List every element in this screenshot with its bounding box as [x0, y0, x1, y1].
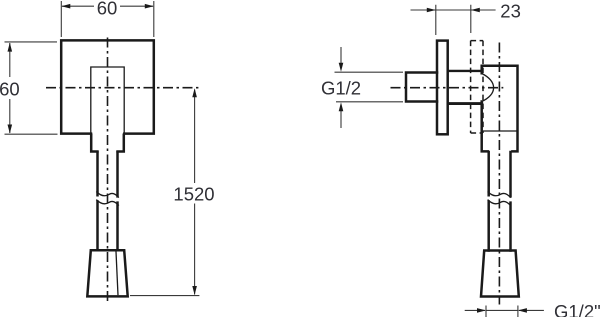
svg-text:G1/2: G1/2	[321, 78, 361, 99]
dimension 60 top: dimension line	[62, 5, 153, 7]
dimension G1/2: arrow below	[340, 111, 342, 128]
right view: vertical centerline	[498, 43, 500, 305]
cone inner line (front)	[116, 252, 118, 296]
hose break squiggle lower (side)	[488, 200, 511, 206]
elbow body (side view)	[482, 66, 518, 152]
dimension G1/2 inch: extension lines	[486, 306, 518, 317]
dimension 23: dimension line	[411, 9, 496, 11]
hose upper segment (side)	[489, 152, 511, 196]
hose conical tip (side)	[481, 251, 519, 297]
dimension G1/2 inch: arrowheads	[477, 308, 527, 313]
dimension G1/2 inch: dimension line	[465, 309, 544, 311]
dimension 60 left: arrowheads	[8, 43, 13, 134]
body joint line	[483, 130, 517, 132]
pipe end arc inside body	[482, 74, 494, 102]
left view: vertical centerline	[107, 38, 109, 305]
hose break squiggle lower (front)	[96, 200, 119, 206]
inner rectangle (cover detail)	[91, 67, 124, 133]
svg-text:1520: 1520	[173, 183, 214, 204]
hose break squiggle upper (side)	[488, 192, 511, 198]
dimension 23: extension lines	[436, 5, 471, 35]
dimension 23: arrowheads	[427, 8, 480, 13]
hose lower segment (front)	[98, 202, 118, 251]
svg-text:60: 60	[97, 0, 118, 19]
svg-text:60: 60	[0, 78, 20, 99]
left view: horizontal centerline	[46, 87, 198, 89]
hose lower segment (side)	[489, 202, 511, 251]
dimension 1520: extension line at hose tip	[130, 295, 199, 297]
dimension G1/2: arrow above	[340, 47, 342, 63]
ghost flange (recessed position, dashed)	[471, 41, 483, 133]
hose conical tip (front)	[87, 250, 127, 296]
dimension 60 top: extension lines	[61, 1, 154, 37]
svg-text:G1/2": G1/2"	[554, 301, 600, 317]
wall flange (side view)	[437, 41, 448, 135]
hose break squiggle upper (front)	[96, 192, 119, 198]
neck between flange and body	[448, 70, 481, 72]
threaded inlet pipe (side view)	[406, 73, 437, 102]
dimension 60 left: dimension line	[9, 43, 11, 133]
hose upper segment (front)	[98, 152, 118, 196]
outlet block below plate	[91, 135, 124, 152]
svg-text:23: 23	[500, 1, 521, 22]
right view: horizontal centerline	[391, 87, 504, 89]
dimension 60 left: extension lines	[5, 42, 58, 134]
wall plate square (front view)	[61, 40, 154, 133]
dimension 1520: arrowheads	[192, 88, 197, 295]
dimension 1520: dimension line	[194, 90, 196, 295]
dimension G1/2: extension lines	[335, 72, 404, 102]
dimension 60 top: arrowheads	[61, 4, 154, 9]
